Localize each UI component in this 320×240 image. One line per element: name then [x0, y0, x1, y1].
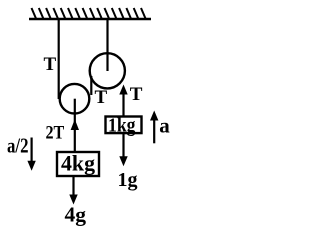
ceiling hatching — [32, 8, 146, 19]
arrow 4g down — [72, 177, 74, 198]
svg-text:a/2: a/2 — [7, 133, 29, 157]
wire: rope from fixed pulley down to 1kg with tension arrow — [122, 88, 124, 116]
svg-text:2T: 2T — [46, 122, 65, 143]
wire: support rope from ceiling to fixed pulley center — [106, 19, 108, 71]
wire: left rope from ceiling to movable pulley — [58, 19, 60, 99]
arrow 1g down — [122, 134, 124, 160]
wire: rope between pulleys — [90, 76, 92, 95]
svg-text:4kg: 4kg — [61, 151, 95, 176]
svg-text:1g: 1g — [118, 169, 138, 191]
arrow a/2 down — [31, 138, 33, 165]
svg-text:4g: 4g — [65, 203, 87, 227]
pulley P2 fixed (right) — [90, 53, 125, 88]
arrowhead T up — [119, 85, 127, 95]
ceiling line — [29, 18, 151, 20]
mass box 1kg — [106, 117, 142, 134]
pulley P1 movable (left) — [60, 84, 90, 114]
svg-text:1kg: 1kg — [108, 115, 136, 137]
mass box 4kg — [57, 152, 99, 176]
arrowhead 2T up — [71, 119, 79, 130]
svg-text:T: T — [44, 54, 57, 75]
arrow a up (right of 1kg) — [153, 114, 155, 143]
svg-text:a: a — [159, 114, 170, 138]
wire: rod from movable pulley center to 4kg with 2T arrow — [74, 99, 76, 151]
svg-text:T: T — [95, 87, 108, 108]
svg-text:T: T — [130, 84, 143, 105]
